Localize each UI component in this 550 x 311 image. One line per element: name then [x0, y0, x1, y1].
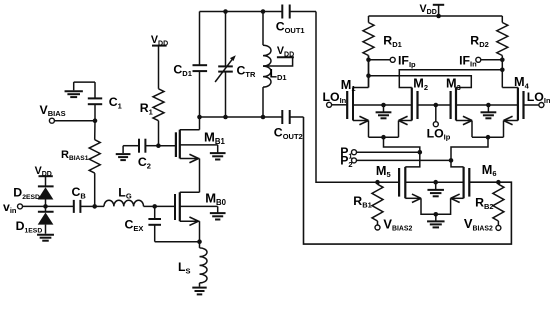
- VDD symbol (LD1 tap): [263, 57, 293, 66]
- varactor CTR: [225, 12, 227, 67]
- inductor LG: [95, 205, 104, 207]
- VDD symbol (R1): [152, 45, 167, 47]
- node IFip line: [366, 73, 371, 78]
- node diodes: [43, 204, 48, 209]
- ground (M1/M2 bulk): [383, 105, 385, 112]
- bulk line MB0: [180, 205, 218, 207]
- wire tank top rail: [200, 11, 283, 13]
- node CD1/rail: [197, 115, 202, 120]
- transistor MB0: [155, 205, 176, 207]
- wire M3/M4 tail: [472, 136, 504, 138]
- transistor MB1: [158, 145, 176, 147]
- node CB/RBIAS1: [92, 204, 97, 209]
- transistor M6: [468, 168, 470, 197]
- node RB1/gate M5: [375, 180, 380, 185]
- terminal P2: [352, 158, 357, 163]
- terminal P1: [352, 150, 357, 155]
- terminal IFip: [369, 59, 391, 61]
- terminal LOip: [433, 122, 438, 127]
- capacitor CEX: [154, 206, 156, 219]
- wire P1: [356, 151, 419, 153]
- transistor M2: [416, 91, 418, 119]
- transistor M4: [522, 91, 524, 119]
- bulk line MB1: [180, 144, 218, 146]
- node R1/C2/MB1-gate: [156, 143, 161, 148]
- node LG/CEX/MB0-gate: [152, 204, 157, 209]
- transistor M5: [398, 168, 400, 197]
- terminal VBIAS2 right: [496, 225, 501, 230]
- capacitor CB: [46, 205, 74, 207]
- bulk line M5-M6: [405, 181, 463, 183]
- ground (MB0 bulk): [217, 206, 219, 213]
- terminal LOin left: [327, 102, 332, 107]
- wire MB0 drain to MB1 source: [199, 159, 201, 193]
- wire M1/M2 tail: [369, 136, 399, 138]
- resistor RB2: [493, 184, 504, 221]
- bulk line M3-M4: [456, 104, 518, 106]
- node IFin stub: [500, 58, 505, 63]
- resistor R1: [158, 121, 160, 146]
- wire tank bottom rail: [200, 116, 283, 118]
- terminal vin: [18, 204, 23, 209]
- wire MB0 source node: [199, 221, 201, 242]
- bulk line M1-M2: [353, 104, 412, 106]
- terminal VBIAS: [49, 118, 54, 123]
- wire vin to diode node: [22, 205, 45, 207]
- ground (M3/M4 bulk): [487, 105, 489, 112]
- node P1 junction: [418, 150, 423, 155]
- node M5/M6 source: [434, 212, 439, 217]
- wire VBIAS: [54, 120, 95, 122]
- wire COUT1 to M5 gate: [316, 12, 399, 183]
- wire mixer VDD rail: [369, 15, 503, 17]
- transistor M3: [436, 104, 451, 106]
- node MB0-source/CEX/LS: [197, 239, 202, 244]
- diode D2ESD: [38, 185, 54, 187]
- terminal IFin: [481, 59, 503, 61]
- capacitor C1: [94, 82, 96, 98]
- wire P2: [356, 159, 451, 161]
- terminal LOin right: [539, 103, 544, 108]
- ground (D1ESD): [37, 234, 54, 236]
- capacitor C2: [138, 139, 140, 153]
- terminal VBIAS2 left: [375, 225, 380, 230]
- resistor RB1: [372, 184, 383, 221]
- node P2 junction: [449, 158, 454, 163]
- resistor RBIAS1: [94, 121, 96, 140]
- wire tail to M5 drain: [384, 137, 420, 167]
- capacitor CD1: [199, 12, 201, 66]
- resistor RD2: [501, 16, 503, 23]
- diode D1ESD: [45, 206, 47, 211]
- wire tail to M6 drain: [451, 137, 488, 167]
- wire COUT2 to M6 gate (routing): [304, 117, 512, 244]
- capacitor COUT2: [281, 110, 283, 124]
- wire MB1 drain to tank: [199, 117, 201, 130]
- ground (C2): [116, 153, 131, 155]
- transistor M1: [332, 104, 348, 106]
- ground (LS): [192, 287, 206, 289]
- node IFin line: [500, 68, 505, 73]
- capacitor COUT1: [281, 5, 283, 19]
- ground (C1 top): [73, 82, 75, 90]
- ground (MB1 bulk): [217, 145, 219, 153]
- node IFip stub: [366, 58, 371, 63]
- node VDD rail: [436, 14, 441, 19]
- wire C1-top to ground: [74, 81, 95, 83]
- wire IFin to M2 drain (line A): [399, 70, 502, 88]
- ground (M5/M6 source): [435, 214, 437, 221]
- ground (M5/M6 bulk): [435, 182, 437, 190]
- resistor RD1: [368, 16, 370, 23]
- wire IFip to M3 drain (line B): [369, 76, 472, 88]
- inductor LD1: [262, 12, 264, 46]
- inductor LS: [199, 242, 201, 248]
- node VBIAS/C1/RBIAS1: [93, 118, 98, 123]
